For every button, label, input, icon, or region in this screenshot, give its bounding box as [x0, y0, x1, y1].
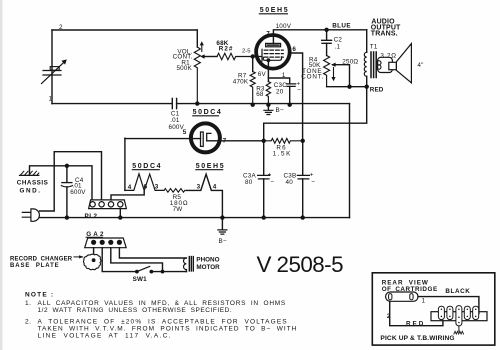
svg-text:BASE PLATE: BASE PLATE	[10, 263, 60, 269]
svg-text:GND.: GND.	[20, 188, 42, 195]
svg-text:1: 1	[49, 96, 53, 103]
svg-text:ALL CAPACITOR VALUES IN MFD, &: ALL CAPACITOR VALUES IN MFD, & ALL RESIS…	[38, 300, 286, 307]
svg-text:6V: 6V	[258, 71, 267, 78]
svg-text:RECORD CHANGER: RECORD CHANGER	[10, 256, 73, 262]
svg-text:1.: 1.	[25, 300, 32, 307]
svg-text:−: −	[270, 179, 274, 186]
svg-text:4: 4	[213, 184, 217, 191]
svg-text:LINE VOLTAGE AT 117 V.A.C.: LINE VOLTAGE AT 117 V.A.C.	[38, 333, 172, 340]
svg-text:500K: 500K	[176, 65, 192, 72]
svg-text:250Ω: 250Ω	[342, 58, 358, 65]
svg-text:GA2: GA2	[86, 231, 106, 238]
svg-text:50EH5: 50EH5	[260, 7, 289, 14]
svg-text:1/2 WATT RATING UNLESS OTHERWI: 1/2 WATT RATING UNLESS OTHERWISE SPECIFI…	[38, 307, 233, 314]
svg-text:SW1: SW1	[133, 276, 148, 283]
svg-text:470K: 470K	[233, 79, 249, 86]
svg-text:CHASSIS: CHASSIS	[17, 180, 49, 187]
svg-text:600V: 600V	[70, 189, 86, 196]
svg-text:PL2: PL2	[85, 213, 98, 220]
svg-text:3: 3	[197, 184, 201, 191]
svg-text:MOTOR: MOTOR	[196, 264, 220, 271]
svg-text:2.: 2.	[25, 319, 32, 326]
svg-text:50DC4: 50DC4	[193, 109, 223, 116]
svg-text:1.5K: 1.5K	[273, 151, 292, 158]
svg-text:2: 2	[59, 24, 63, 31]
svg-text:2: 2	[387, 313, 391, 320]
svg-text:3: 3	[155, 184, 159, 191]
svg-text:+: +	[310, 171, 314, 178]
svg-text:NOTE :: NOTE :	[25, 291, 54, 298]
svg-text:OF CARTRIDGE: OF CARTRIDGE	[382, 286, 438, 293]
svg-text:.1: .1	[335, 43, 341, 50]
svg-text:+: +	[268, 171, 272, 178]
svg-text:4: 4	[128, 184, 132, 191]
svg-text:BLUE: BLUE	[332, 22, 351, 29]
svg-text:R2#: R2#	[219, 46, 234, 53]
svg-text:RED: RED	[406, 320, 425, 327]
svg-text:20: 20	[276, 88, 284, 95]
svg-text:TAKEN WITH V.T.V.M. FROM POINT: TAKEN WITH V.T.V.M. FROM POINTS INDICATE…	[38, 326, 298, 333]
svg-text:PHONO: PHONO	[196, 256, 219, 263]
svg-text:100V: 100V	[276, 23, 292, 30]
svg-text:V 2508-5: V 2508-5	[257, 252, 344, 277]
svg-text:7: 7	[223, 138, 227, 145]
svg-text:T1: T1	[370, 44, 378, 51]
svg-text:40: 40	[286, 179, 294, 186]
svg-text:CONT.: CONT.	[301, 74, 324, 81]
svg-text:PICK UP & T.B.WIRING: PICK UP & T.B.WIRING	[380, 335, 454, 342]
svg-text:1: 1	[422, 297, 426, 304]
svg-text:4": 4"	[417, 62, 423, 69]
svg-text:B−: B−	[276, 107, 284, 114]
svg-text:−: −	[311, 179, 315, 186]
svg-text:A TOLERANCE OF ±20% IS ACCEPTA: A TOLERANCE OF ±20% IS ACCEPTABLE FOR VO…	[38, 319, 288, 326]
svg-text:TRANS.: TRANS.	[371, 31, 398, 38]
svg-text:−: −	[297, 87, 301, 94]
svg-text:7W: 7W	[173, 206, 183, 213]
svg-text:BLACK: BLACK	[445, 288, 470, 295]
svg-text:50DC4: 50DC4	[132, 163, 162, 170]
svg-text:2-5: 2-5	[242, 49, 251, 55]
svg-text:1: 1	[282, 72, 286, 79]
svg-text:5: 5	[183, 129, 187, 136]
svg-text:50EH5: 50EH5	[196, 163, 225, 170]
svg-text:68: 68	[256, 91, 264, 98]
svg-text:B−: B−	[219, 238, 227, 245]
svg-text:7: 7	[266, 30, 270, 37]
svg-text:6: 6	[292, 46, 296, 53]
svg-text:3.2Ω: 3.2Ω	[380, 53, 396, 60]
svg-text:6: 6	[144, 184, 148, 191]
svg-text:80: 80	[245, 179, 253, 186]
svg-text:RED: RED	[370, 87, 384, 94]
